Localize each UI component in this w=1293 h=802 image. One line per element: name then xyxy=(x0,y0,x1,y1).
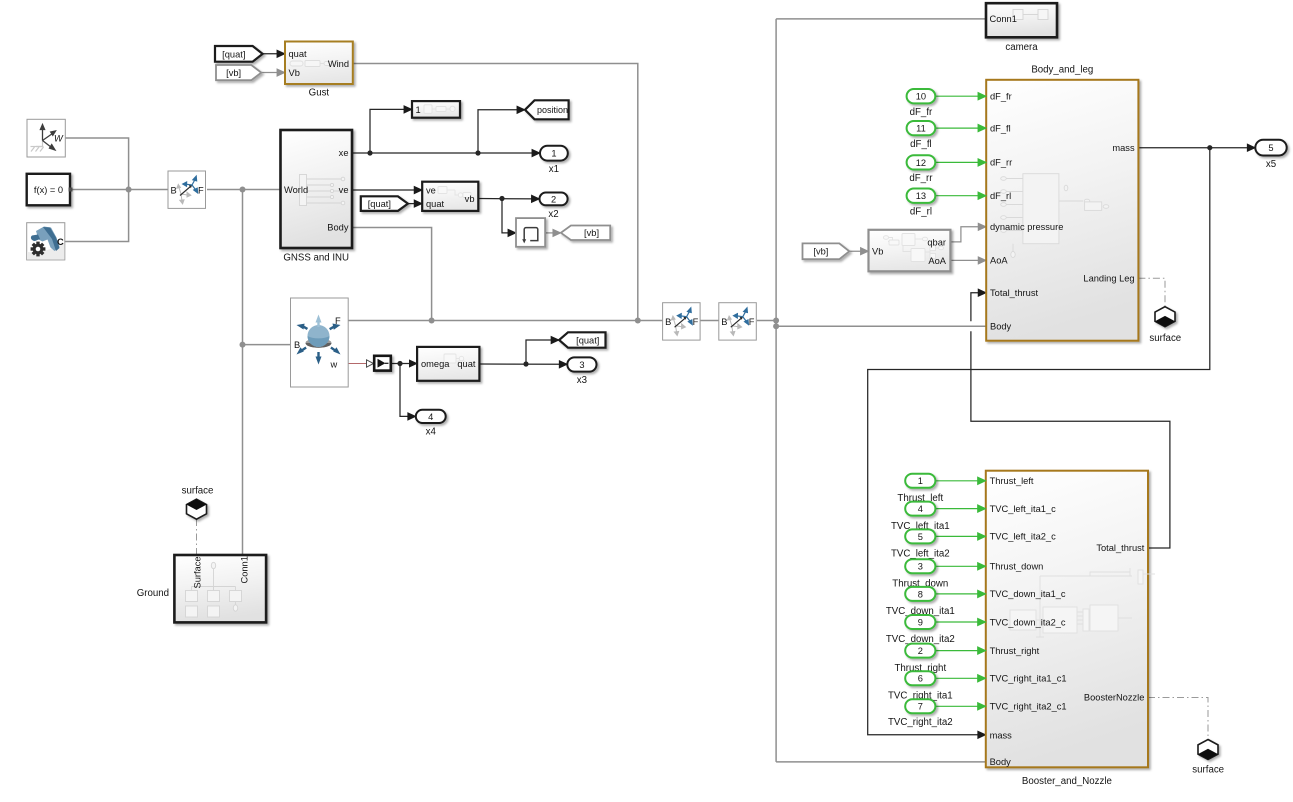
block Body_and_leg xyxy=(986,65,1138,341)
svg-text:World: World xyxy=(284,185,308,195)
svg-text:11: 11 xyxy=(916,124,926,134)
wire green input 1 booster xyxy=(935,480,985,482)
svg-text:w: w xyxy=(330,359,338,369)
wire green input 3 booster xyxy=(935,565,985,567)
wire green input 11 xyxy=(935,127,986,129)
block Booster_and_Nozzle xyxy=(986,471,1155,788)
wire green input 5 booster xyxy=(935,535,985,537)
svg-text:dF_rr: dF_rr xyxy=(990,158,1012,168)
wire qbar to dynamic pressure xyxy=(950,227,986,242)
svg-text:quat: quat xyxy=(289,49,308,59)
block GNSS and INU xyxy=(281,130,353,248)
wire PS converter out to omega xyxy=(391,363,417,365)
junction at World line xyxy=(240,187,246,193)
svg-text:f(x) = 0: f(x) = 0 xyxy=(34,185,63,195)
svg-text:10: 10 xyxy=(916,92,926,102)
svg-text:Vb: Vb xyxy=(289,68,300,78)
svg-text:B: B xyxy=(294,340,300,350)
block Transform B-F no.1 xyxy=(168,171,206,208)
svg-text:dF_rl: dF_rl xyxy=(910,206,932,217)
svg-text:1: 1 xyxy=(918,476,923,486)
wire mass to out x5 xyxy=(1138,147,1255,149)
svg-text:Thrust_left: Thrust_left xyxy=(990,476,1034,486)
input port 7 TVC_right_ita2 xyxy=(905,699,935,713)
svg-text:omega: omega xyxy=(421,359,450,369)
wire from [vb] top to Gust Vb xyxy=(261,72,285,74)
junction left bus xyxy=(126,187,132,193)
svg-text:surface: surface xyxy=(182,486,214,497)
svg-text:GNSS and INU: GNSS and INU xyxy=(283,253,349,264)
svg-text:Total_thrust: Total_thrust xyxy=(1096,543,1144,553)
wire 6DOF w to PS converter (physical signal) xyxy=(348,363,366,365)
wire GNSS Body down to F line xyxy=(352,228,432,321)
svg-text:x2: x2 xyxy=(548,209,558,220)
input port 10 dF_fr xyxy=(907,89,936,103)
junction Body net upper xyxy=(773,318,779,324)
svg-text:Gust: Gust xyxy=(309,88,330,99)
svg-text:C: C xyxy=(57,237,64,247)
icon surface cube left xyxy=(187,499,207,519)
junction Body net lower xyxy=(773,323,779,329)
svg-text:2: 2 xyxy=(918,646,923,656)
svg-text:surface: surface xyxy=(1192,764,1224,775)
wire green input 2 booster xyxy=(935,650,985,652)
svg-text:2: 2 xyxy=(551,194,556,204)
svg-text:dF_fr: dF_fr xyxy=(910,107,933,118)
output port x1 xyxy=(540,146,568,161)
svg-text:dF_rl: dF_rl xyxy=(990,191,1011,201)
svg-text:BoosterNozzle: BoosterNozzle xyxy=(1084,693,1144,703)
input port 9 TVC_down_ita2 xyxy=(905,615,935,629)
input port 5 TVC_left_ita2 xyxy=(905,529,935,543)
svg-text:vb: vb xyxy=(465,194,475,204)
svg-text:quat: quat xyxy=(426,199,445,209)
wire Total_thrust loop to Body_and_leg xyxy=(971,293,1170,548)
wire GNSS xe to out x1 xyxy=(352,152,540,154)
svg-text:surface: surface xyxy=(1149,333,1181,344)
block Transform B-F no.3 xyxy=(719,303,757,340)
svg-text:[vb]: [vb] xyxy=(226,68,241,78)
block Vb qbar AoA xyxy=(869,230,951,271)
block PS-Simulink converter xyxy=(367,356,391,371)
svg-text:AoA: AoA xyxy=(990,256,1008,266)
wire green input 4 booster xyxy=(935,508,985,510)
svg-text:position: position xyxy=(537,105,568,115)
from tag [quat] middle xyxy=(361,196,408,211)
svg-text:13: 13 xyxy=(916,191,926,201)
wire from [quat] top to Gust quat xyxy=(263,53,285,55)
svg-text:4: 4 xyxy=(918,504,923,514)
wire vb out to out x2 xyxy=(478,198,539,200)
wire xe branch to thumbnail block 1 xyxy=(367,109,412,155)
svg-text:xe: xe xyxy=(339,148,349,158)
svg-text:7: 7 xyxy=(918,702,923,712)
wire Gust Wind down to F line xyxy=(353,64,638,321)
wire Ground Surface dash-dot to surface xyxy=(196,519,198,555)
input port 6 TVC_right_ita1 xyxy=(905,671,935,685)
block camera xyxy=(986,3,1057,37)
svg-text:Thrust_right: Thrust_right xyxy=(990,646,1040,656)
input port 11 dF_fl xyxy=(907,121,936,135)
svg-text:TVC_down_ita2_c: TVC_down_ita2_c xyxy=(990,617,1066,627)
svg-text:camera: camera xyxy=(1005,42,1038,53)
svg-text:dF_fl: dF_fl xyxy=(990,123,1011,133)
wire camera Conn1 xyxy=(776,18,986,20)
junction at 6DOF B xyxy=(240,342,246,348)
svg-text:[vb]: [vb] xyxy=(813,247,828,257)
svg-text:Booster_and_Nozzle: Booster_and_Nozzle xyxy=(1022,776,1112,787)
svg-text:[quat]: [quat] xyxy=(576,335,599,345)
svg-text:TVC_left_ita2: TVC_left_ita2 xyxy=(891,549,950,560)
svg-text:Conn1: Conn1 xyxy=(240,556,250,583)
svg-text:Body_and_leg: Body_and_leg xyxy=(1031,65,1093,76)
wire green input 7 booster xyxy=(935,705,985,707)
svg-text:ve: ve xyxy=(339,185,349,195)
wire f(x)=0 to transform1 B xyxy=(70,189,168,191)
output port x5 xyxy=(1255,140,1286,156)
svg-text:AoA: AoA xyxy=(928,256,946,266)
wire mass loop to Booster mass input xyxy=(868,145,1213,735)
block display subsystem 1 xyxy=(412,101,460,118)
svg-text:mass: mass xyxy=(990,730,1013,740)
wire Body net vertical camera/booster xyxy=(775,19,777,762)
svg-text:TVC_left_ita1_c: TVC_left_ita1_c xyxy=(990,504,1056,514)
svg-text:1: 1 xyxy=(416,105,421,115)
svg-text:3: 3 xyxy=(918,562,923,572)
svg-text:[quat]: [quat] xyxy=(368,199,391,209)
label surface bottom-right xyxy=(1198,740,1218,760)
wire memory to goto [vb] xyxy=(545,232,561,234)
svg-text:x1: x1 xyxy=(549,164,559,175)
wire green input 12 xyxy=(935,161,986,163)
svg-text:qbar: qbar xyxy=(927,237,946,247)
block Ground xyxy=(174,555,266,622)
svg-text:dF_fl: dF_fl xyxy=(910,139,932,150)
svg-text:Thrust_down: Thrust_down xyxy=(990,562,1044,572)
wire vb branch to memory xyxy=(499,196,516,233)
block subsystem omega-quat xyxy=(417,347,479,381)
wire Landing Leg dash-dot to surface xyxy=(1138,278,1165,307)
wire from [quat] to subsystem quat xyxy=(408,203,422,205)
wire AoA xyxy=(950,259,986,261)
svg-text:x3: x3 xyxy=(577,375,587,386)
input port 1 Thrust_left xyxy=(905,474,935,488)
block Memory xyxy=(516,218,545,247)
wire Booster Body port xyxy=(776,761,986,763)
svg-text:dF_rr: dF_rr xyxy=(909,173,933,184)
svg-text:TVC_right_ita1_c1: TVC_right_ita1_c1 xyxy=(990,674,1067,684)
wire branch to out x4 xyxy=(397,361,415,417)
svg-text:Body: Body xyxy=(327,223,349,233)
input port 12 dF_rr xyxy=(907,155,936,169)
svg-text:Wind: Wind xyxy=(328,59,349,69)
svg-text:dF_fr: dF_fr xyxy=(990,91,1012,101)
booster port labels xyxy=(990,476,1067,767)
svg-text:8: 8 xyxy=(918,589,923,599)
svg-text:Landing Leg: Landing Leg xyxy=(1083,274,1134,284)
svg-text:W: W xyxy=(54,134,64,144)
wire vertical bus to Ground Conn1 xyxy=(242,190,244,556)
svg-text:quat: quat xyxy=(457,359,476,369)
wire quat branch to goto [quat] xyxy=(523,340,559,367)
output port x3 xyxy=(567,357,596,371)
svg-text:1: 1 xyxy=(551,149,556,159)
input port 8 TVC_down_ita1 xyxy=(905,587,935,601)
output port x2 xyxy=(540,193,568,206)
svg-text:12: 12 xyxy=(916,158,926,168)
svg-text:Total_thrust: Total_thrust xyxy=(990,288,1038,298)
wire Mechanism C-port to left bus xyxy=(65,190,129,242)
svg-text:x5: x5 xyxy=(1266,159,1276,170)
from tag [vb] top xyxy=(216,65,261,80)
svg-text:ve: ve xyxy=(426,186,436,196)
block Transform B-F no.2 xyxy=(663,303,701,340)
input port 4 TVC_left_ita1 xyxy=(905,502,935,516)
junction Body/F xyxy=(429,318,435,324)
svg-text:F: F xyxy=(693,317,699,327)
svg-text:Vb: Vb xyxy=(872,247,883,257)
svg-text:6: 6 xyxy=(918,674,923,684)
svg-text:TVC_down_ita1_c: TVC_down_ita1_c xyxy=(990,589,1066,599)
wire green input 13 xyxy=(935,195,986,197)
svg-text:TVC_left_ita2_c: TVC_left_ita2_c xyxy=(990,532,1056,542)
svg-text:dynamic pressure: dynamic pressure xyxy=(990,222,1063,232)
wire transform2 F to transform3 B xyxy=(700,320,719,322)
svg-text:5: 5 xyxy=(918,532,923,542)
svg-text:TVC_right_ita2: TVC_right_ita2 xyxy=(888,717,953,728)
block subsystem ve-quat-vb xyxy=(422,182,478,211)
junction Wind/F xyxy=(635,318,641,324)
wire from [vb] to Vb block xyxy=(849,250,868,252)
label surface right-top xyxy=(1155,307,1175,327)
wire 6DOF B port xyxy=(243,344,291,346)
svg-text:4: 4 xyxy=(428,412,433,422)
block Solver f(x)=0 xyxy=(27,174,70,206)
goto tag [vb] xyxy=(561,226,610,241)
wire 6DOF F to transform2 B xyxy=(348,320,662,322)
wire green input 9 booster xyxy=(935,621,985,623)
wire BoosterNozzle dash-dot to surface xyxy=(1148,698,1208,740)
goto tag [quat] right xyxy=(559,332,605,347)
from tag [vb] right xyxy=(803,243,850,259)
wire GNSS ve to subsystem ve xyxy=(352,189,422,191)
svg-text:F: F xyxy=(198,185,204,195)
svg-text:Body: Body xyxy=(990,322,1012,332)
input port 13 dF_rl xyxy=(907,189,936,203)
output port x4 xyxy=(416,410,446,423)
from tag [quat] top xyxy=(215,46,263,62)
input port 3 Thrust_down xyxy=(905,559,935,573)
wire xe branch to goto position xyxy=(475,110,525,156)
svg-text:Conn1: Conn1 xyxy=(990,14,1017,24)
block World Frame W xyxy=(27,119,65,157)
goto tag position xyxy=(525,100,569,119)
svg-text:5: 5 xyxy=(1268,143,1273,153)
block 6DOF Body xyxy=(291,298,349,387)
wire quat out to out x3 xyxy=(479,363,567,365)
block Mechanism Configuration xyxy=(27,223,65,260)
svg-text:B: B xyxy=(171,185,177,195)
wire green input 8 booster xyxy=(935,593,985,595)
svg-text:Ground: Ground xyxy=(137,588,169,599)
svg-text:F: F xyxy=(749,317,755,327)
svg-text:B: B xyxy=(665,317,671,327)
wire green input 10 xyxy=(935,95,986,97)
wire W-port of World Frame to left bus xyxy=(65,138,128,190)
block Gust xyxy=(285,42,353,99)
svg-text:mass: mass xyxy=(1112,143,1135,153)
svg-text:[quat]: [quat] xyxy=(222,49,245,59)
svg-text:[vb]: [vb] xyxy=(584,228,599,238)
input port 2 Thrust_right xyxy=(905,644,935,658)
wire transform1 F to GNSS World xyxy=(207,189,281,191)
svg-text:Body: Body xyxy=(990,757,1012,767)
svg-text:3: 3 xyxy=(579,360,584,370)
svg-text:9: 9 xyxy=(918,617,923,627)
svg-text:B: B xyxy=(721,317,727,327)
svg-text:x4: x4 xyxy=(426,427,437,438)
svg-text:Surface: Surface xyxy=(193,556,203,588)
wire green input 6 booster xyxy=(935,677,985,679)
svg-text:TVC_right_ita2_c1: TVC_right_ita2_c1 xyxy=(990,702,1067,712)
wire transform3 F to Body_and_leg Body xyxy=(757,321,986,327)
